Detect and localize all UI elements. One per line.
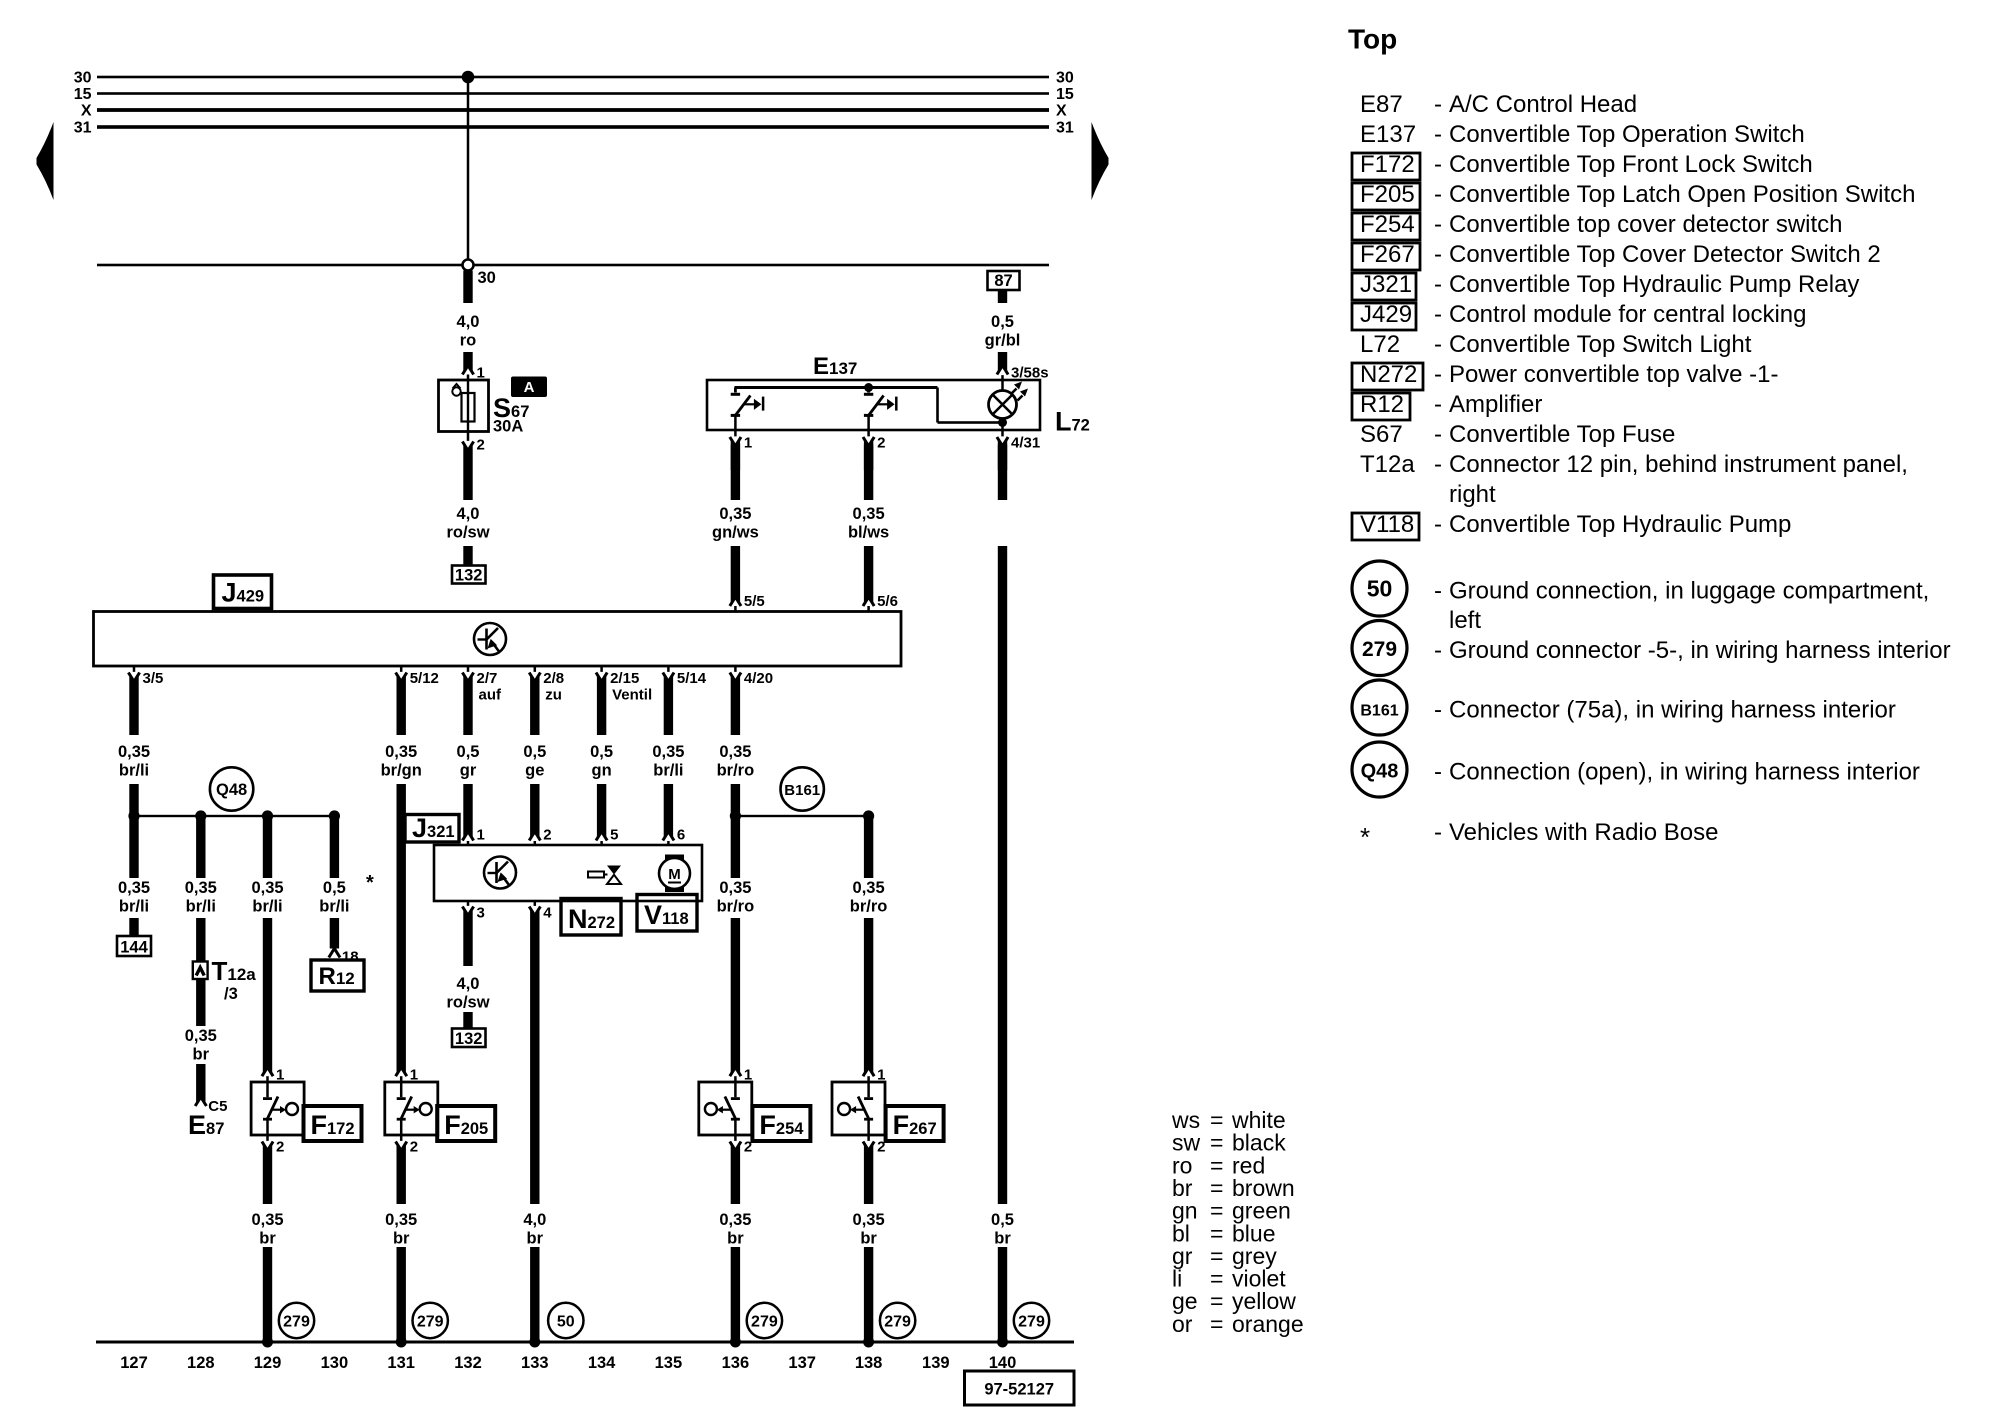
svg-text:B161: B161 xyxy=(1360,703,1398,720)
svg-text:*: * xyxy=(366,872,374,894)
svg-text:-: - xyxy=(1434,421,1442,448)
svg-text:J429: J429 xyxy=(1360,301,1412,328)
svg-text:1: 1 xyxy=(477,827,485,844)
svg-text:-: - xyxy=(1434,361,1442,388)
svg-text:144: 144 xyxy=(120,939,148,957)
svg-text:ro/sw: ro/sw xyxy=(446,524,489,542)
svg-text:F172: F172 xyxy=(311,1110,355,1140)
svg-text:X: X xyxy=(1056,103,1067,120)
svg-text:S67: S67 xyxy=(1360,421,1403,448)
svg-text:-: - xyxy=(1434,211,1442,238)
svg-text:2: 2 xyxy=(410,1139,418,1156)
svg-text:ge: ge xyxy=(525,762,544,780)
svg-text:-: - xyxy=(1434,391,1442,418)
svg-text:br: br xyxy=(860,1230,877,1248)
svg-text:0,35: 0,35 xyxy=(251,879,283,897)
svg-text:C5: C5 xyxy=(208,1098,227,1115)
svg-text:br: br xyxy=(393,1230,410,1248)
svg-text:gn: gn xyxy=(592,762,612,780)
svg-text:br: br xyxy=(259,1230,276,1248)
svg-text:0,35: 0,35 xyxy=(719,743,751,761)
svg-text:-: - xyxy=(1434,819,1442,846)
svg-text:0,35: 0,35 xyxy=(853,879,885,897)
svg-text:L72: L72 xyxy=(1055,407,1090,437)
svg-text:137: 137 xyxy=(788,1354,816,1372)
svg-text:4/20: 4/20 xyxy=(744,670,773,687)
svg-text:2: 2 xyxy=(877,435,885,452)
svg-text:-: - xyxy=(1434,511,1442,538)
svg-text:279: 279 xyxy=(417,1314,444,1331)
svg-text:orange: orange xyxy=(1232,1311,1304,1337)
svg-text:R12: R12 xyxy=(319,963,355,990)
svg-text:2: 2 xyxy=(477,437,485,454)
svg-text:T12a: T12a xyxy=(212,956,257,986)
svg-text:br/li: br/li xyxy=(119,898,149,916)
svg-text:-: - xyxy=(1434,91,1442,118)
svg-text:0,35: 0,35 xyxy=(185,1027,217,1045)
svg-text:J429: J429 xyxy=(222,578,265,608)
svg-text:0,5: 0,5 xyxy=(523,743,546,761)
svg-text:3: 3 xyxy=(477,905,485,922)
svg-text:br: br xyxy=(994,1230,1011,1248)
svg-text:128: 128 xyxy=(187,1354,215,1372)
svg-text:130: 130 xyxy=(321,1354,349,1372)
svg-text:0,35: 0,35 xyxy=(853,1211,885,1229)
svg-text:132: 132 xyxy=(455,567,483,585)
svg-text:5/6: 5/6 xyxy=(877,593,898,610)
svg-text:4/31: 4/31 xyxy=(1011,435,1040,452)
svg-text:134: 134 xyxy=(588,1354,616,1372)
svg-text:3/5: 3/5 xyxy=(143,670,164,687)
svg-text:br/li: br/li xyxy=(653,762,683,780)
svg-text:-: - xyxy=(1434,637,1442,664)
svg-text:0,35: 0,35 xyxy=(853,505,885,523)
svg-text:br/li: br/li xyxy=(119,762,149,780)
svg-text:0,35: 0,35 xyxy=(118,743,150,761)
svg-text:5/14: 5/14 xyxy=(677,670,707,687)
svg-text:E137: E137 xyxy=(1360,121,1416,148)
svg-text:30A: 30A xyxy=(493,418,523,436)
svg-text:0,35: 0,35 xyxy=(652,743,684,761)
svg-text:279: 279 xyxy=(283,1314,310,1331)
svg-text:279: 279 xyxy=(1018,1314,1045,1331)
svg-text:br/li: br/li xyxy=(319,898,349,916)
svg-text:30: 30 xyxy=(478,269,496,287)
svg-text:-: - xyxy=(1434,331,1442,358)
svg-text:2: 2 xyxy=(543,827,551,844)
svg-text:-: - xyxy=(1434,759,1442,786)
svg-text:Convertible Top Latch Open Pos: Convertible Top Latch Open Position Swit… xyxy=(1449,181,1916,208)
svg-text:127: 127 xyxy=(120,1354,148,1372)
svg-text:gn/ws: gn/ws xyxy=(712,524,759,542)
svg-text:0,5: 0,5 xyxy=(991,1211,1014,1229)
svg-text:2/15: 2/15 xyxy=(610,670,639,687)
svg-text:132: 132 xyxy=(454,1354,482,1372)
svg-text:J321: J321 xyxy=(412,813,455,843)
svg-text:0,5: 0,5 xyxy=(323,879,346,897)
svg-text:279: 279 xyxy=(751,1314,778,1331)
svg-text:T12a: T12a xyxy=(1360,451,1415,478)
svg-text:0,35: 0,35 xyxy=(251,1211,283,1229)
svg-text:left: left xyxy=(1449,607,1481,634)
svg-text:0,35: 0,35 xyxy=(719,879,751,897)
svg-text:-: - xyxy=(1434,271,1442,298)
svg-text:zu: zu xyxy=(545,687,562,704)
svg-text:L72: L72 xyxy=(1360,331,1400,358)
svg-text:-: - xyxy=(1434,697,1442,724)
svg-text:gr/bl: gr/bl xyxy=(985,332,1021,350)
svg-text:N272: N272 xyxy=(568,904,615,934)
svg-text:N272: N272 xyxy=(1360,361,1417,388)
svg-text:139: 139 xyxy=(922,1354,950,1372)
svg-text:131: 131 xyxy=(387,1354,415,1372)
svg-text:Control module for central loc: Control module for central locking xyxy=(1449,301,1807,328)
svg-text:1: 1 xyxy=(276,1067,284,1084)
svg-text:Ventil: Ventil xyxy=(612,687,652,704)
svg-text:279: 279 xyxy=(884,1314,911,1331)
svg-text:1: 1 xyxy=(410,1067,418,1084)
svg-text:*: * xyxy=(1360,822,1370,852)
svg-text:R12: R12 xyxy=(1360,391,1404,418)
svg-text:F172: F172 xyxy=(1360,151,1415,178)
svg-text:F254: F254 xyxy=(759,1110,804,1140)
svg-text:0,35: 0,35 xyxy=(385,1211,417,1229)
svg-text:Convertible Top Hydraulic Pump: Convertible Top Hydraulic Pump Relay xyxy=(1449,271,1859,298)
svg-text:Q48: Q48 xyxy=(1361,761,1399,783)
svg-text:br: br xyxy=(193,1046,210,1064)
svg-text:bl/ws: bl/ws xyxy=(848,524,889,542)
svg-text:-: - xyxy=(1434,121,1442,148)
svg-text:87: 87 xyxy=(994,272,1012,290)
svg-text:Convertible Top Operation Swit: Convertible Top Operation Switch xyxy=(1449,121,1805,148)
svg-text:5: 5 xyxy=(610,827,618,844)
svg-text:M: M xyxy=(668,866,681,883)
svg-text:4: 4 xyxy=(543,905,552,922)
svg-text:50: 50 xyxy=(1367,576,1393,602)
svg-text:Convertible Top Hydraulic Pump: Convertible Top Hydraulic Pump xyxy=(1449,511,1791,538)
svg-text:br/gn: br/gn xyxy=(381,762,422,780)
svg-text:-: - xyxy=(1434,181,1442,208)
svg-text:50: 50 xyxy=(557,1314,575,1331)
svg-text:/3: /3 xyxy=(224,985,238,1003)
svg-text:F205: F205 xyxy=(444,1110,488,1140)
svg-text:right: right xyxy=(1449,481,1496,508)
svg-text:30: 30 xyxy=(74,70,92,87)
svg-text:0,35: 0,35 xyxy=(719,505,751,523)
svg-text:2/8: 2/8 xyxy=(543,670,564,687)
svg-text:132: 132 xyxy=(455,1030,483,1048)
svg-text:Convertible Top Cover Detector: Convertible Top Cover Detector Switch 2 xyxy=(1449,241,1881,268)
svg-text:15: 15 xyxy=(74,86,92,103)
svg-text:Connector 12 pin, behind instr: Connector 12 pin, behind instrument pane… xyxy=(1449,451,1908,478)
svg-text:31: 31 xyxy=(1056,120,1074,137)
svg-text:-: - xyxy=(1434,578,1442,605)
svg-text:auf: auf xyxy=(479,687,503,704)
svg-text:2: 2 xyxy=(276,1139,284,1156)
svg-text:Ground connection, in luggage: Ground connection, in luggage compartmen… xyxy=(1449,578,1929,605)
svg-text:0,35: 0,35 xyxy=(185,879,217,897)
svg-text:gr: gr xyxy=(460,762,477,780)
svg-text:1: 1 xyxy=(877,1067,885,1084)
svg-text:V118: V118 xyxy=(1360,511,1414,538)
svg-text:br/ro: br/ro xyxy=(850,898,888,916)
svg-text:ro/sw: ro/sw xyxy=(446,994,489,1012)
svg-text:or: or xyxy=(1172,1311,1193,1337)
svg-text:0,35: 0,35 xyxy=(385,743,417,761)
svg-text:-: - xyxy=(1434,451,1442,478)
svg-text:br: br xyxy=(727,1230,744,1248)
svg-text:129: 129 xyxy=(254,1354,282,1372)
svg-text:Connector (75a), in wiring har: Connector (75a), in wiring harness inter… xyxy=(1449,697,1896,724)
svg-text:0,35: 0,35 xyxy=(118,879,150,897)
svg-text:br: br xyxy=(527,1230,544,1248)
svg-text:133: 133 xyxy=(521,1354,549,1372)
svg-text:Convertible Top Switch Light: Convertible Top Switch Light xyxy=(1449,331,1752,358)
svg-text:E137: E137 xyxy=(813,353,857,380)
svg-text:F205: F205 xyxy=(1360,181,1415,208)
svg-text:ro: ro xyxy=(460,332,477,350)
svg-text:A: A xyxy=(524,379,535,396)
svg-text:br/li: br/li xyxy=(186,898,216,916)
svg-text:6: 6 xyxy=(677,827,685,844)
svg-text:br/ro: br/ro xyxy=(717,898,755,916)
svg-text:97-52127: 97-52127 xyxy=(984,1381,1054,1399)
svg-text:4,0: 4,0 xyxy=(523,1211,546,1229)
svg-text:Convertible top cover detector: Convertible top cover detector switch xyxy=(1449,211,1843,238)
svg-text:5/12: 5/12 xyxy=(410,670,439,687)
svg-text:V118: V118 xyxy=(644,900,689,930)
svg-text:15: 15 xyxy=(1056,86,1074,103)
svg-text:30: 30 xyxy=(1056,70,1074,87)
svg-text:1: 1 xyxy=(744,1067,752,1084)
svg-text:3/58s: 3/58s xyxy=(1011,365,1049,382)
svg-text:br/ro: br/ro xyxy=(717,762,755,780)
svg-text:A/C Control Head: A/C Control Head xyxy=(1449,91,1637,118)
svg-text:br/li: br/li xyxy=(252,898,282,916)
svg-text:J321: J321 xyxy=(1360,271,1412,298)
svg-text:2/7: 2/7 xyxy=(477,670,498,687)
svg-text:-: - xyxy=(1434,241,1442,268)
svg-text:140: 140 xyxy=(989,1354,1017,1372)
svg-text:0,35: 0,35 xyxy=(719,1211,751,1229)
svg-text:Connection (open), in wiring h: Connection (open), in wiring harness int… xyxy=(1449,759,1920,786)
svg-text:135: 135 xyxy=(655,1354,683,1372)
svg-text:-: - xyxy=(1434,151,1442,178)
svg-text:4,0: 4,0 xyxy=(457,505,480,523)
svg-text:1: 1 xyxy=(744,435,752,452)
svg-text:Amplifier: Amplifier xyxy=(1449,391,1542,418)
svg-text:0,5: 0,5 xyxy=(457,743,480,761)
svg-text:18: 18 xyxy=(342,949,359,966)
svg-text:F254: F254 xyxy=(1360,211,1415,238)
svg-text:0,5: 0,5 xyxy=(590,743,613,761)
svg-text:B161: B161 xyxy=(784,782,820,799)
svg-text:0,5: 0,5 xyxy=(991,313,1014,331)
svg-text:E87: E87 xyxy=(1360,91,1403,118)
svg-text:5/5: 5/5 xyxy=(744,593,765,610)
svg-text:-: - xyxy=(1434,301,1442,328)
svg-text:=: = xyxy=(1210,1311,1223,1337)
svg-text:4,0: 4,0 xyxy=(457,975,480,993)
svg-text:4,0: 4,0 xyxy=(457,313,480,331)
svg-text:279: 279 xyxy=(1362,638,1397,661)
svg-text:Ground connector -5-, in wirin: Ground connector -5-, in wiring harness … xyxy=(1449,637,1951,664)
svg-text:X: X xyxy=(81,103,92,120)
svg-text:Vehicles with Radio Bose: Vehicles with Radio Bose xyxy=(1449,819,1718,846)
svg-text:136: 136 xyxy=(722,1354,750,1372)
svg-text:F267: F267 xyxy=(1360,241,1415,268)
svg-text:F267: F267 xyxy=(893,1110,937,1140)
svg-text:Convertible Top Front Lock Swi: Convertible Top Front Lock Switch xyxy=(1449,151,1813,178)
svg-text:Top: Top xyxy=(1348,24,1397,55)
svg-text:31: 31 xyxy=(74,120,92,137)
svg-text:Q48: Q48 xyxy=(216,781,247,799)
svg-text:Power convertible top valve -1: Power convertible top valve -1- xyxy=(1449,361,1778,388)
svg-text:Convertible Top Fuse: Convertible Top Fuse xyxy=(1449,421,1675,448)
svg-text:138: 138 xyxy=(855,1354,883,1372)
